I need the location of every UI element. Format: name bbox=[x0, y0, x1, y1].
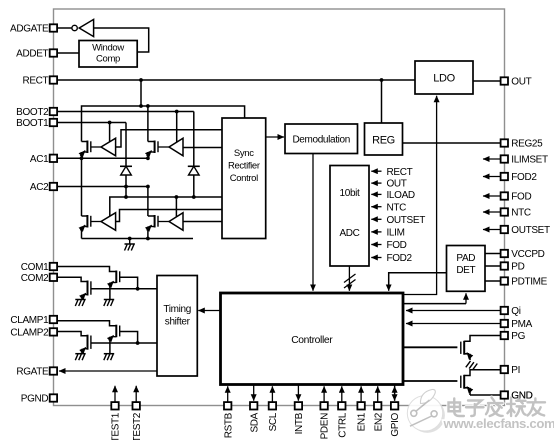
svg-text:DET: DET bbox=[456, 265, 475, 276]
node BOOT1 driver supply bbox=[108, 121, 112, 125]
wire ADC input ILOAD bbox=[371, 193, 381, 195]
wire AC1 to M3 drain bbox=[81, 158, 83, 216]
svg-text:Sync: Sync bbox=[234, 148, 254, 159]
wire CLAMP1 to Q3 drain bbox=[57, 321, 116, 326]
svg-text:ADDET: ADDET bbox=[16, 49, 48, 60]
svg-text:10bit: 10bit bbox=[340, 188, 361, 199]
wire RECT to REG top bbox=[381, 80, 383, 123]
wire PAD DET to VCCPD bbox=[485, 253, 501, 255]
wire bus to driver U6 bbox=[175, 197, 177, 217]
wire AC1 rail bbox=[57, 157, 148, 159]
pin CLAMP1 bbox=[50, 316, 57, 323]
wire inverter input feedback bbox=[94, 28, 149, 52]
wire ADC input OUTSET bbox=[371, 218, 381, 220]
wire ADC input FOD bbox=[371, 244, 381, 246]
wire EN1 to Controller bbox=[360, 386, 362, 402]
pin FOD2 bbox=[501, 173, 508, 180]
pin SCL bbox=[269, 402, 276, 409]
pin ILIMSET bbox=[501, 155, 508, 162]
wire Controller to INTB bbox=[297, 385, 299, 401]
pin RSTB bbox=[224, 402, 231, 409]
wire M2 drain bbox=[147, 106, 149, 142]
pin COM1 bbox=[50, 263, 57, 270]
wire BOOT1 to diode D1 bbox=[125, 123, 127, 198]
svg-text:ADC: ADC bbox=[339, 228, 359, 239]
ground CLAMP Q3 bbox=[104, 353, 114, 355]
pin PMA bbox=[501, 320, 508, 327]
wire ADC to Controller bus bbox=[348, 266, 350, 291]
pin TEST2 bbox=[133, 402, 140, 409]
wire ADDET to Window Comp bbox=[57, 52, 79, 54]
node RECT-bridge junction bbox=[139, 78, 143, 82]
block PAD DET bbox=[447, 246, 486, 292]
svg-text:TEST2: TEST2 bbox=[132, 412, 143, 440]
wire PG to Q5 drain bbox=[464, 336, 500, 342]
gate driver U4 bbox=[158, 146, 169, 148]
pin EN1 bbox=[357, 402, 364, 409]
wire Q1 gate to output bbox=[120, 277, 138, 289]
svg-text:Control: Control bbox=[230, 173, 258, 184]
ground CLAMP Q4 bbox=[75, 353, 85, 355]
wire FOD input arrow bbox=[483, 195, 501, 197]
svg-text:RECT: RECT bbox=[22, 76, 48, 87]
transistor Q2 source arrow bbox=[81, 293, 86, 298]
wire driver supply bus bbox=[110, 197, 222, 217]
wire ADC input RECT bbox=[371, 170, 381, 172]
pin REG25 bbox=[501, 139, 508, 146]
svg-text:ILOAD: ILOAD bbox=[387, 190, 415, 201]
transistor Q1 source arrow bbox=[109, 281, 114, 286]
wire Sync to Demodulation bbox=[266, 136, 284, 138]
svg-text:RGATE: RGATE bbox=[16, 367, 49, 378]
block 10bit ADC bbox=[330, 166, 369, 267]
wire controller to LDO feed bbox=[403, 96, 437, 295]
pin GND bbox=[501, 391, 508, 398]
watermark elecfans logo and text bbox=[407, 389, 445, 432]
block Timing shifter bbox=[157, 276, 197, 377]
wire Q4 gate to Timing shifter bbox=[91, 342, 157, 344]
node ground junction bbox=[128, 237, 132, 241]
wire BOOT1 to driver U3 bbox=[109, 123, 111, 142]
pin NTC bbox=[501, 208, 508, 215]
wire bridge source bus bbox=[82, 238, 194, 240]
node M4 source junction bbox=[146, 237, 150, 241]
wire REG to REG25 pin bbox=[403, 142, 501, 144]
pin PGND bbox=[50, 394, 57, 401]
inverter U2 bubble bbox=[72, 25, 77, 30]
wire ADC input NTC bbox=[371, 206, 381, 208]
pin VCCPD bbox=[501, 250, 508, 257]
wire RECT to bridge bus bbox=[140, 80, 142, 106]
node AC2-D1 junction bbox=[124, 185, 128, 189]
wire RSTB to Controller bbox=[227, 386, 229, 402]
svg-text:CTRL: CTRL bbox=[337, 412, 348, 438]
wire PAD DET to PD bbox=[485, 265, 501, 267]
chassis ground Q5 bbox=[466, 361, 471, 367]
svg-text:Qi: Qi bbox=[511, 306, 520, 317]
wire Controller to Q6 gate bbox=[403, 380, 457, 382]
wire SCL to Controller bbox=[271, 386, 273, 402]
svg-text:PDEN: PDEN bbox=[320, 413, 331, 440]
gate driver U6 bbox=[158, 221, 169, 223]
svg-text:CLAMP2: CLAMP2 bbox=[10, 328, 49, 339]
transistor Q5 bbox=[463, 341, 465, 355]
wire bridge top bus bbox=[82, 106, 245, 142]
comparator block Window Comp bbox=[79, 41, 137, 68]
pin BOOT1 bbox=[50, 119, 57, 126]
node AC1-M1 junction bbox=[80, 156, 84, 160]
svg-text:PG: PG bbox=[511, 331, 525, 342]
wire Controller to SDA bbox=[253, 385, 255, 401]
node bus-RECT junction bbox=[139, 104, 143, 108]
wire COM2 to Q2 drain bbox=[57, 277, 88, 281]
svg-text:REG25: REG25 bbox=[511, 139, 543, 150]
wire PMA to Controller bbox=[406, 323, 501, 325]
wire Controller to PAD DET bbox=[403, 303, 466, 305]
pin AC1 bbox=[50, 155, 57, 162]
transistor Q6 bbox=[463, 375, 465, 389]
pin PI bbox=[501, 366, 508, 373]
wire driver U4 input bbox=[183, 147, 222, 149]
svg-text:LDO: LDO bbox=[433, 73, 455, 85]
pin PD bbox=[501, 262, 508, 269]
svg-text:NTC: NTC bbox=[511, 208, 531, 219]
wire ADC input FOD2 bbox=[371, 257, 381, 259]
pin EN2 bbox=[374, 402, 381, 409]
transistor Q1 bbox=[115, 271, 117, 284]
svg-text:NTC: NTC bbox=[387, 202, 407, 213]
pin ADGATE bbox=[50, 24, 57, 31]
svg-text:AC2: AC2 bbox=[30, 182, 49, 193]
svg-text:CLAMP1: CLAMP1 bbox=[10, 315, 49, 326]
wire NTC input arrow bbox=[483, 211, 501, 213]
pin RGATE bbox=[50, 367, 57, 374]
svg-text:RSTB: RSTB bbox=[223, 412, 234, 438]
wire OUTSET input arrow bbox=[483, 229, 501, 231]
svg-text:REG: REG bbox=[372, 135, 395, 147]
pin GPIO bbox=[391, 402, 398, 409]
svg-text:FOD: FOD bbox=[511, 192, 531, 203]
svg-text:PGND: PGND bbox=[21, 394, 49, 405]
wire driver U5 input bbox=[116, 210, 222, 222]
svg-text:INTB: INTB bbox=[294, 412, 305, 434]
pin TEST1 bbox=[111, 402, 118, 409]
transistor Q4 bbox=[87, 335, 89, 350]
svg-text:ILIM: ILIM bbox=[387, 228, 405, 239]
pin PDTIME bbox=[501, 277, 508, 284]
wire Controller to GPIO bbox=[394, 385, 396, 401]
wire ADC input ILIM bbox=[371, 231, 381, 233]
wire BOOT2 rail bbox=[57, 111, 194, 113]
transistor M4 bbox=[148, 215, 155, 217]
svg-text:OUT: OUT bbox=[511, 77, 531, 88]
wire driver U6 input bbox=[183, 221, 222, 223]
svg-text:Rectifier: Rectifier bbox=[228, 161, 260, 172]
wire PI to Q6 drain bbox=[464, 370, 500, 376]
pin CLAMP2 bbox=[50, 328, 57, 335]
svg-text:BOOT1: BOOT1 bbox=[16, 118, 49, 129]
wire ADC input OUT bbox=[371, 182, 381, 184]
transistor M1 source arrow bbox=[80, 151, 85, 156]
wire Controller to Timing shifter bbox=[198, 310, 220, 312]
wire COM1 to Q1 drain bbox=[57, 267, 116, 272]
svg-text:Timing: Timing bbox=[163, 304, 191, 315]
wire PDEN to Controller bbox=[323, 386, 325, 402]
wire TEST2 arrow bbox=[135, 386, 137, 402]
pin SDA bbox=[250, 402, 257, 409]
node bus-M2 junction bbox=[146, 104, 150, 108]
transistor Q3 bbox=[115, 325, 117, 338]
pin INTB bbox=[295, 402, 302, 409]
svg-text:Comp: Comp bbox=[96, 54, 120, 65]
wire Timing shifter to RGATE bbox=[59, 370, 157, 372]
svg-text:ADGATE: ADGATE bbox=[10, 24, 49, 35]
pin AC2 bbox=[50, 183, 57, 190]
svg-text:OUT: OUT bbox=[387, 179, 407, 190]
wire Q2 gate to Timing shifter bbox=[91, 288, 157, 290]
wire BOOT2 to driver U4 bbox=[176, 112, 178, 142]
pin OUT bbox=[501, 77, 508, 84]
svg-text:PD: PD bbox=[511, 262, 524, 273]
svg-text:FOD2: FOD2 bbox=[387, 253, 413, 264]
wire PAD DET to PDTIME bbox=[485, 280, 501, 282]
svg-text:GPIO: GPIO bbox=[390, 412, 401, 436]
transistor Q6 source arrow bbox=[467, 387, 471, 392]
transistor M4 source arrow bbox=[147, 225, 152, 230]
svg-text:TEST1: TEST1 bbox=[111, 412, 122, 440]
transistor Q4 source arrow bbox=[81, 347, 86, 352]
block Controller bbox=[221, 293, 404, 385]
wire PAD DET to Controller top bbox=[389, 273, 447, 288]
svg-text:GND: GND bbox=[511, 391, 532, 402]
ground COM Q2 bbox=[75, 299, 85, 301]
wire ADGATE to inverter output bbox=[57, 27, 72, 29]
svg-text:PAD: PAD bbox=[456, 253, 475, 264]
wire BOOT2 to diode D2 bbox=[193, 112, 195, 198]
wire FOD2 input arrow bbox=[483, 176, 501, 178]
wire LDO output to OUT pin bbox=[473, 80, 501, 82]
node BOOT2 driver supply bbox=[175, 110, 179, 114]
transistor M1 bbox=[82, 141, 88, 143]
regulator block LDO bbox=[415, 61, 473, 94]
pin CTRL bbox=[338, 402, 345, 409]
node AC2-M4 junction bbox=[146, 185, 150, 189]
pin RECT bbox=[50, 76, 57, 83]
pin PG bbox=[501, 332, 508, 339]
block Sync Rectifier Control bbox=[222, 118, 266, 239]
wire BOOT1 rail bbox=[57, 122, 126, 124]
wire driver U3 input bbox=[116, 130, 222, 147]
pin COM2 bbox=[50, 274, 57, 281]
transistor M3 bbox=[82, 215, 88, 217]
svg-text:EN1: EN1 bbox=[357, 412, 368, 431]
regulator block REG bbox=[365, 123, 403, 155]
transistor Q5 source arrow bbox=[467, 353, 471, 358]
svg-text:www.elecfans.com: www.elecfans.com bbox=[443, 416, 554, 431]
svg-text:OUTSET: OUTSET bbox=[511, 225, 550, 236]
transistor Q3 source arrow bbox=[109, 335, 114, 340]
wire Controller to Q5 gate bbox=[403, 346, 457, 348]
ground bridge bbox=[129, 239, 131, 245]
node RECT-REG junction bbox=[380, 78, 384, 82]
bus slash marks bbox=[344, 274, 356, 283]
wire TEST1 arrow bbox=[114, 386, 116, 402]
ground COM Q1 bbox=[104, 299, 114, 301]
inverter U2 triangle bbox=[79, 19, 93, 36]
gate driver U5 bbox=[91, 221, 101, 223]
wire CTRL to Controller bbox=[341, 386, 343, 402]
svg-text:PI: PI bbox=[511, 365, 520, 376]
wire Q3 gate to output bbox=[120, 332, 138, 344]
svg-text:FOD2: FOD2 bbox=[511, 172, 537, 183]
wire AC2 rail bbox=[57, 186, 148, 188]
svg-text:FOD: FOD bbox=[387, 240, 407, 251]
pin BOOT2 bbox=[50, 108, 57, 115]
svg-text:BOOT2: BOOT2 bbox=[16, 107, 49, 118]
node AC1-M2 junction bbox=[146, 156, 150, 160]
svg-text:SDA: SDA bbox=[249, 412, 260, 432]
svg-text:PMA: PMA bbox=[511, 319, 532, 330]
svg-text:RECT: RECT bbox=[387, 167, 413, 178]
pin PDEN bbox=[320, 402, 327, 409]
svg-text:VCCPD: VCCPD bbox=[511, 249, 544, 260]
gate driver U3 bbox=[91, 146, 101, 148]
svg-text:OUTSET: OUTSET bbox=[387, 215, 426, 226]
transistor M2 source arrow bbox=[147, 151, 152, 156]
svg-text:Controller: Controller bbox=[291, 335, 333, 346]
node bus-D1 junction bbox=[124, 195, 128, 199]
pin ADDET bbox=[50, 49, 57, 56]
transistor M3 source arrow bbox=[80, 225, 85, 230]
wire Demodulation to Controller bbox=[312, 154, 314, 291]
pin OUTSET bbox=[501, 226, 508, 233]
svg-text:ILIMSET: ILIMSET bbox=[511, 155, 548, 166]
node CLAMP gates junction bbox=[136, 341, 140, 345]
wire Q6 source to GND bbox=[470, 394, 501, 396]
transistor M2 bbox=[148, 141, 155, 143]
transistor Q2 bbox=[87, 281, 89, 296]
node COM gates junction bbox=[136, 287, 140, 291]
wire CLAMP2 to Q4 drain bbox=[57, 332, 88, 336]
wire ILIMSET input arrow bbox=[483, 158, 501, 160]
node bus-U6 junction bbox=[175, 195, 179, 199]
wire RECT rail bbox=[57, 79, 415, 81]
svg-text:Demodulation: Demodulation bbox=[292, 134, 350, 145]
svg-text:COM2: COM2 bbox=[21, 273, 49, 284]
svg-text:AC1: AC1 bbox=[30, 154, 49, 165]
block Demodulation bbox=[285, 124, 358, 154]
svg-text:Window: Window bbox=[92, 43, 124, 54]
wire Qi to Controller bbox=[406, 310, 501, 312]
wire AC2 to M4 drain bbox=[147, 187, 149, 217]
svg-text:shifter: shifter bbox=[165, 317, 191, 328]
pin FOD bbox=[501, 192, 508, 199]
wire EN2 to Controller bbox=[377, 386, 379, 402]
svg-text:COM1: COM1 bbox=[21, 262, 49, 273]
node bus-D2 junction bbox=[192, 195, 196, 199]
svg-text:SCL: SCL bbox=[268, 412, 279, 431]
svg-text:PDTIME: PDTIME bbox=[511, 277, 547, 288]
IC package outline bbox=[54, 9, 505, 406]
svg-text:EN2: EN2 bbox=[373, 412, 384, 431]
pin Qi bbox=[501, 307, 508, 314]
diode D1 bbox=[120, 165, 132, 167]
diode D2 bbox=[188, 165, 200, 167]
